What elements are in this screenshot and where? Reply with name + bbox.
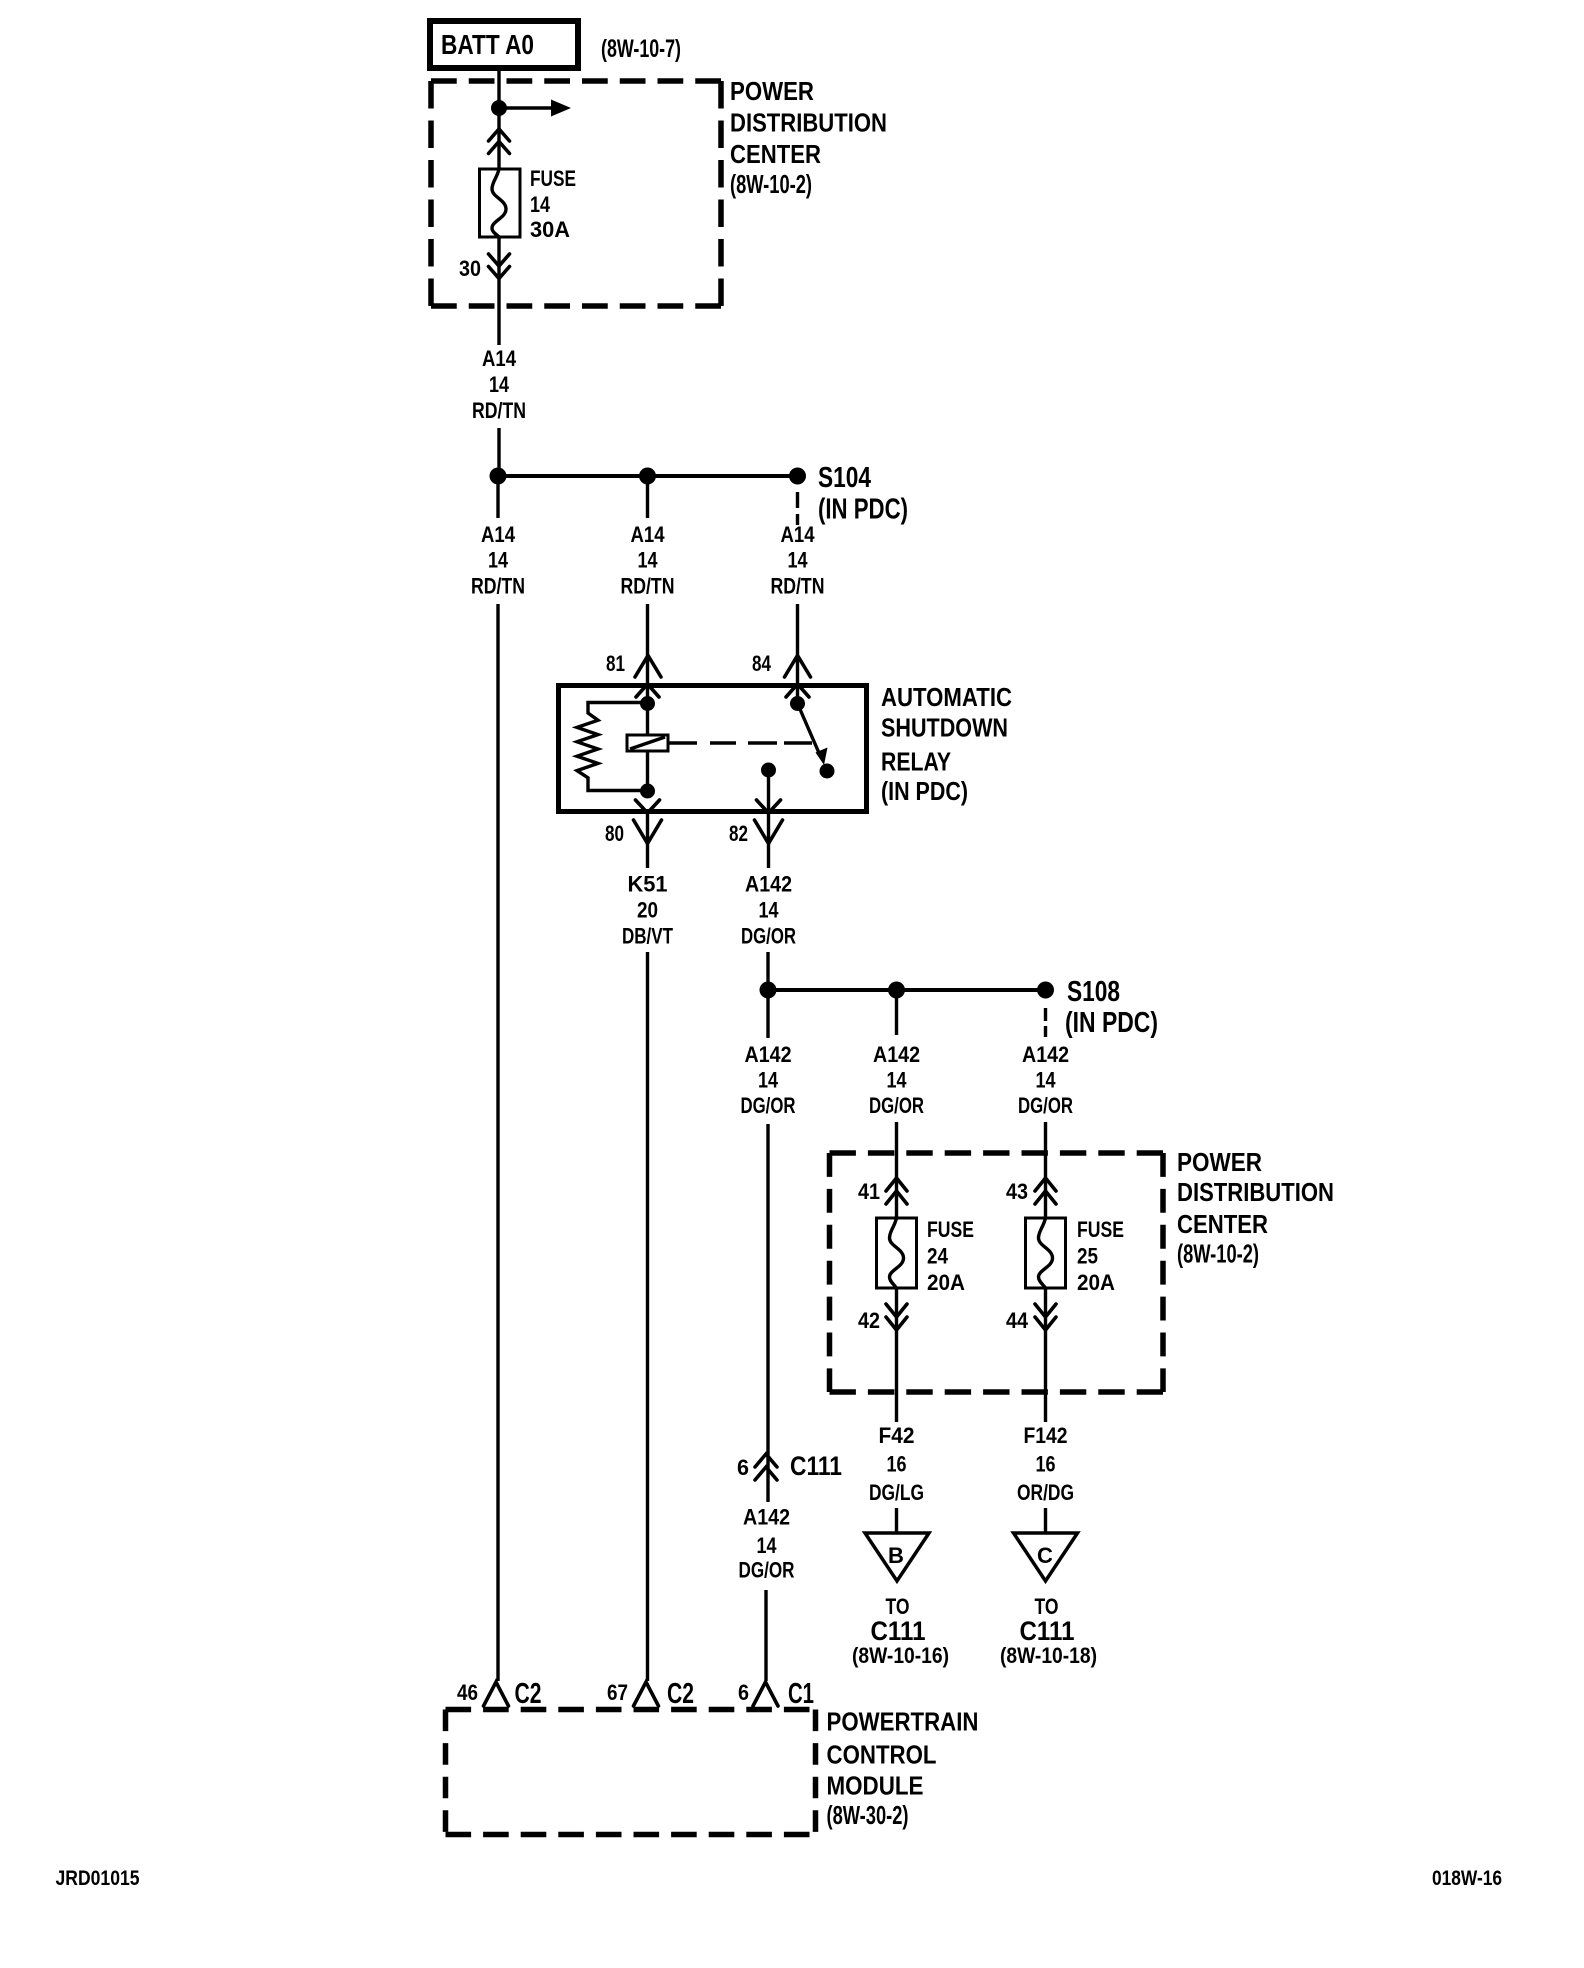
svg-text:C111: C111 xyxy=(871,1616,926,1646)
svg-text:FUSE: FUSE xyxy=(927,1217,974,1242)
svg-text:(IN PDC): (IN PDC) xyxy=(881,776,968,806)
svg-text:CONTROL: CONTROL xyxy=(827,1740,937,1770)
svg-text:16: 16 xyxy=(887,1452,907,1477)
svg-text:DISTRIBUTION: DISTRIBUTION xyxy=(730,108,887,138)
svg-text:RD/TN: RD/TN xyxy=(621,574,675,599)
svg-text:C1: C1 xyxy=(788,1678,814,1710)
svg-text:DISTRIBUTION: DISTRIBUTION xyxy=(1177,1177,1334,1207)
svg-text:JRD01015: JRD01015 xyxy=(56,1867,140,1890)
svg-text:A14: A14 xyxy=(781,522,816,547)
svg-text:F142: F142 xyxy=(1024,1423,1068,1448)
svg-text:41: 41 xyxy=(858,1179,880,1204)
svg-text:14: 14 xyxy=(758,1068,779,1093)
svg-text:C: C xyxy=(1037,1543,1053,1568)
svg-text:S104: S104 xyxy=(818,462,871,494)
svg-text:67: 67 xyxy=(607,1680,628,1705)
svg-text:POWERTRAIN: POWERTRAIN xyxy=(827,1707,979,1737)
svg-text:14: 14 xyxy=(530,192,551,217)
svg-text:DG/OR: DG/OR xyxy=(1018,1093,1073,1118)
svg-text:RD/TN: RD/TN xyxy=(771,574,825,599)
svg-text:C111: C111 xyxy=(1020,1616,1075,1646)
svg-text:K51: K51 xyxy=(628,872,668,897)
svg-text:20A: 20A xyxy=(927,1270,965,1295)
svg-text:(8W-10-16): (8W-10-16) xyxy=(852,1643,949,1668)
svg-text:(8W-10-2): (8W-10-2) xyxy=(730,169,812,199)
svg-text:81: 81 xyxy=(606,651,625,676)
svg-text:14: 14 xyxy=(887,1068,908,1093)
svg-text:F42: F42 xyxy=(879,1423,915,1448)
svg-text:S108: S108 xyxy=(1067,976,1120,1008)
svg-text:14: 14 xyxy=(489,372,510,397)
svg-text:14: 14 xyxy=(488,548,509,573)
svg-text:A142: A142 xyxy=(743,1505,790,1530)
svg-text:14: 14 xyxy=(759,898,780,923)
svg-text:DB/VT: DB/VT xyxy=(622,924,673,949)
svg-text:A14: A14 xyxy=(482,346,517,371)
svg-text:82: 82 xyxy=(729,821,748,846)
svg-text:C2: C2 xyxy=(667,1678,694,1710)
svg-text:A142: A142 xyxy=(1022,1042,1069,1067)
svg-text:AUTOMATIC: AUTOMATIC xyxy=(881,682,1012,712)
svg-text:20: 20 xyxy=(637,898,658,923)
svg-text:(IN PDC): (IN PDC) xyxy=(1065,1007,1158,1039)
svg-text:46: 46 xyxy=(457,1680,478,1705)
svg-text:43: 43 xyxy=(1006,1179,1028,1204)
svg-text:25: 25 xyxy=(1077,1244,1098,1269)
svg-text:(8W-30-2): (8W-30-2) xyxy=(827,1800,909,1830)
svg-text:20A: 20A xyxy=(1077,1270,1115,1295)
svg-text:POWER: POWER xyxy=(730,76,814,106)
svg-text:DG/OR: DG/OR xyxy=(741,924,796,949)
svg-text:018W-16: 018W-16 xyxy=(1432,1867,1502,1890)
svg-text:42: 42 xyxy=(858,1308,880,1333)
svg-text:BATT A0: BATT A0 xyxy=(441,29,534,60)
svg-text:A14: A14 xyxy=(481,522,516,547)
svg-text:16: 16 xyxy=(1036,1452,1056,1477)
svg-text:MODULE: MODULE xyxy=(827,1771,924,1801)
svg-text:FUSE: FUSE xyxy=(530,166,576,191)
svg-text:A142: A142 xyxy=(873,1042,920,1067)
svg-text:24: 24 xyxy=(927,1244,949,1269)
svg-text:80: 80 xyxy=(605,821,624,846)
svg-text:6: 6 xyxy=(737,1455,749,1480)
svg-text:FUSE: FUSE xyxy=(1077,1217,1124,1242)
svg-text:A142: A142 xyxy=(745,872,792,897)
svg-text:A14: A14 xyxy=(631,522,666,547)
svg-text:RD/TN: RD/TN xyxy=(471,574,525,599)
svg-text:14: 14 xyxy=(638,548,659,573)
svg-text:(IN PDC): (IN PDC) xyxy=(818,494,908,526)
svg-text:POWER: POWER xyxy=(1177,1147,1262,1177)
svg-text:84: 84 xyxy=(752,651,772,676)
svg-text:44: 44 xyxy=(1006,1308,1029,1333)
svg-text:DG/OR: DG/OR xyxy=(741,1093,796,1118)
svg-text:C111: C111 xyxy=(790,1451,842,1481)
svg-text:SHUTDOWN: SHUTDOWN xyxy=(881,713,1008,743)
svg-text:CENTER: CENTER xyxy=(1177,1209,1268,1239)
svg-text:(8W-10-18): (8W-10-18) xyxy=(1000,1643,1097,1668)
svg-text:DG/OR: DG/OR xyxy=(869,1093,924,1118)
svg-text:OR/DG: OR/DG xyxy=(1017,1480,1074,1505)
svg-text:30: 30 xyxy=(459,256,481,281)
svg-text:14: 14 xyxy=(788,548,809,573)
svg-text:30A: 30A xyxy=(530,217,570,242)
svg-text:14: 14 xyxy=(1036,1068,1057,1093)
svg-text:DG/LG: DG/LG xyxy=(869,1480,924,1505)
svg-text:6: 6 xyxy=(738,1680,749,1705)
svg-text:DG/OR: DG/OR xyxy=(739,1558,795,1583)
svg-text:(8W-10-7): (8W-10-7) xyxy=(601,35,681,63)
svg-text:RELAY: RELAY xyxy=(881,747,951,777)
svg-text:RD/TN: RD/TN xyxy=(472,398,526,423)
svg-text:C2: C2 xyxy=(515,1678,542,1710)
svg-text:A142: A142 xyxy=(745,1042,792,1067)
svg-text:B: B xyxy=(888,1543,904,1568)
svg-text:(8W-10-2): (8W-10-2) xyxy=(1177,1239,1259,1269)
svg-text:14: 14 xyxy=(757,1533,778,1558)
svg-text:CENTER: CENTER xyxy=(730,139,821,169)
